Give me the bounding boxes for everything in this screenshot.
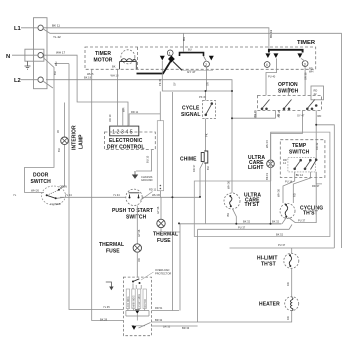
svg-text:WH: WH (309, 70, 313, 74)
chassis ground arrow (134, 171, 136, 175)
thermal fuse B (157, 219, 165, 227)
svg-text:WH 36: WH 36 (277, 189, 281, 197)
svg-text:INTERIOR: INTERIOR (72, 125, 78, 150)
svg-text:MAIN WDG: MAIN WDG (133, 295, 136, 307)
wire PTS to chime drop (142, 196, 200, 198)
svg-text:FUSE: FUSE (106, 249, 120, 255)
motor internal wires (126, 284, 151, 329)
svg-text:CHIME: CHIME (180, 156, 197, 162)
svg-text:SWITCH: SWITCH (31, 179, 52, 185)
timer motor dashed box partition (137, 47, 139, 69)
svg-text:RD: RD (293, 193, 297, 197)
contact triangle 4a (265, 53, 270, 58)
contact triangle left of diamond (160, 56, 165, 61)
ultra care light (267, 160, 275, 168)
svg-text:BK 11: BK 11 (52, 24, 60, 28)
wire chime 2nd terminal to PTS line (200, 162, 203, 197)
svg-text:GROUND: GROUND (141, 178, 153, 182)
wire circle2 down to PK line (206, 67, 208, 91)
svg-text:BK: BK (226, 213, 230, 217)
svg-text:BU: BU (206, 166, 210, 170)
svg-text:CLOSED: CLOSED (50, 202, 61, 206)
door switch dashed outline (42, 186, 66, 205)
svg-text:RD 51: RD 51 (155, 306, 163, 310)
svg-text:WH 5: WH 5 (87, 72, 94, 76)
wire interior lamp rail (64, 103, 66, 138)
motor winding 1 (126, 289, 129, 309)
push to start switch (126, 189, 142, 205)
wire WH17 N to dry control (44, 55, 129, 126)
svg-text:WH 36: WH 36 (226, 181, 230, 189)
svg-text:RD 11: RD 11 (149, 188, 157, 192)
terminal block N section (25, 49, 44, 61)
wire temp switch feed (315, 125, 317, 159)
svg-text:YL 35: YL 35 (103, 305, 110, 309)
wire RD11 PTS up to timer (171, 92, 173, 311)
wire circle 3 to option switch (301, 58, 305, 95)
svg-text:DOOR: DOOR (33, 173, 49, 179)
svg-text:BK 32: BK 32 (243, 220, 251, 224)
wire N lead (12, 54, 38, 56)
svg-text:LIGHT: LIGHT (248, 165, 264, 171)
svg-text:PK: PK (205, 133, 209, 137)
svg-text:PU 15: PU 15 (253, 110, 257, 118)
svg-text:L1: L1 (14, 26, 22, 32)
terminal L2 (38, 77, 43, 82)
svg-text:N: N (6, 54, 10, 60)
svg-text:WH 36: WH 36 (152, 193, 160, 197)
overload protector symbol (132, 281, 134, 283)
wire L1 lead (21, 27, 38, 29)
svg-text:BU 14: BU 14 (296, 173, 304, 177)
svg-text:TH'ST: TH'ST (245, 202, 260, 208)
solid box around temp switch and cycling thst (194, 132, 330, 236)
svg-text:BK 28: BK 28 (100, 317, 108, 321)
svg-text:DRY CONTROL: DRY CONTROL (107, 144, 145, 150)
svg-text:OR: OR (206, 82, 210, 86)
svg-text:YL 42: YL 42 (53, 35, 61, 39)
contact triangle right of bracket (209, 56, 214, 61)
svg-text:AUX WDG: AUX WDG (127, 296, 130, 307)
wire cycling bottom left (282, 218, 286, 224)
svg-text:BU: BU (53, 71, 57, 75)
svg-text:RD: RD (314, 89, 318, 93)
wire mid rail x197 (197, 229, 199, 322)
svg-text:BR 33: BR 33 (163, 325, 171, 329)
svg-text:HEATER: HEATER (259, 302, 280, 308)
wire option out to right rail (316, 110, 334, 248)
svg-text:BU: BU (182, 37, 186, 41)
svg-text:RD: RD (286, 282, 290, 286)
heater (285, 297, 299, 311)
wire cycle signal top (205, 91, 207, 101)
timer dashed box (85, 47, 316, 69)
wire neutral rail top link (55, 63, 70, 65)
svg-text:RD 42: RD 42 (315, 142, 319, 150)
wire YL42 L1 to right edge (43, 29, 341, 248)
wire option out to ultra care light (271, 110, 303, 133)
wire hi-limit to heater (291, 268, 293, 296)
thick wire motor to contact 1 junction (137, 61, 171, 74)
cycle signal contact (205, 103, 213, 116)
electronic dry control dashed box (104, 132, 155, 150)
svg-text:SWITCH: SWITCH (289, 150, 310, 156)
junction dots (171, 90, 317, 225)
wire GY47 junction to option switch (173, 62, 182, 71)
wire temp out right to cycling top (293, 172, 310, 203)
svg-text:ROTOR: ROTOR (145, 299, 147, 308)
terminal N (38, 53, 43, 58)
wire L2 lead (21, 79, 38, 81)
timer motor M1 (121, 50, 135, 64)
wire dry control terminal 4 RD11 (129, 92, 160, 127)
svg-text:ELECTRONIC: ELECTRONIC (109, 138, 143, 144)
svg-text:WH: WH (122, 108, 126, 112)
svg-text:PU 37: PU 37 (278, 243, 286, 247)
wire BK11 L1 to timer contact 4 (43, 28, 269, 50)
option switch contact S3 (306, 100, 317, 110)
svg-text:L2: L2 (14, 78, 21, 84)
wire lamp to door switch open (59, 145, 65, 190)
svg-text:1: 1 (169, 52, 171, 56)
svg-text:GY 36: GY 36 (156, 206, 160, 214)
svg-text:MOTOR: MOTOR (94, 57, 113, 63)
svg-text:PU 37: PU 37 (238, 225, 246, 229)
wire fuse A to motor (136, 252, 138, 277)
svg-text:RD: RD (318, 114, 322, 118)
ultra care thermostat (224, 193, 240, 209)
svg-text:3: 3 (304, 62, 306, 66)
svg-text:TH'ST: TH'ST (303, 211, 318, 217)
wire L2 to door switch (25, 68, 54, 193)
svg-text:PU 37: PU 37 (298, 218, 306, 222)
svg-text:GY 36: GY 36 (137, 229, 141, 237)
svg-text:PU 14: PU 14 (285, 180, 293, 184)
svg-text:SWITCH: SWITCH (278, 89, 299, 95)
belt switch arrow (106, 282, 112, 287)
svg-text:PK 45: PK 45 (158, 78, 162, 86)
interior lamp (61, 137, 69, 145)
svg-text:BR 32: BR 32 (155, 318, 163, 322)
timer contact bracket BU (180, 53, 204, 56)
svg-text:4: 4 (266, 63, 268, 67)
timer contact circle 3 (302, 61, 308, 67)
svg-text:OR 19: OR 19 (108, 114, 112, 122)
wire L2 to ultra care thermostat (43, 80, 232, 193)
wire fuse B top to PTS line (160, 198, 162, 220)
cycling thermostat (280, 204, 295, 219)
svg-text:BK 19: BK 19 (265, 172, 269, 180)
hi-limit thermostat (284, 253, 299, 268)
svg-text:RD 37: RD 37 (192, 164, 196, 172)
wire BK rail from timer motor (92, 72, 124, 321)
wire PTS down to thermal fuse A (136, 206, 138, 244)
svg-text:FUSE: FUSE (157, 238, 171, 244)
svg-text:BK: BK (112, 65, 116, 69)
svg-text:RD 11: RD 11 (131, 110, 139, 114)
wire light bottom to BK32 (270, 168, 272, 224)
svg-text:START WDG: START WDG (138, 294, 141, 308)
svg-text:GY 47: GY 47 (297, 114, 305, 118)
svg-text:OR: OR (137, 258, 141, 262)
wire dry control output BU15 (136, 150, 152, 171)
motor winding 2 (132, 289, 135, 309)
svg-text:WH: WH (54, 62, 58, 66)
svg-text:TIMER: TIMER (95, 51, 111, 57)
svg-text:BU 15: BU 15 (146, 155, 150, 163)
wire BU drop to timer bracket (182, 33, 184, 51)
svg-text:LAMP: LAMP (79, 134, 85, 149)
motor winding 3 (137, 289, 140, 309)
wire bracket to circle 2 (204, 56, 207, 61)
svg-text:OR 36: OR 36 (304, 72, 308, 80)
ground symbol (25, 61, 31, 69)
terminal block body (34, 18, 48, 89)
svg-text:GY: GY (173, 82, 177, 86)
svg-text:OPTION: OPTION (278, 82, 298, 88)
wire dry control terminal 3 stub (122, 108, 124, 126)
timer contact circle 2 (204, 61, 210, 67)
svg-text:BU: BU (57, 148, 61, 152)
svg-text:WH 15: WH 15 (265, 140, 269, 148)
svg-text:YL: YL (13, 193, 17, 197)
svg-text:BR 33: BR 33 (182, 326, 190, 330)
svg-text:CYCLE: CYCLE (182, 106, 200, 112)
svg-text:YL 34: YL 34 (113, 193, 120, 197)
start capacitor box (157, 121, 163, 191)
svg-text:TEMP: TEMP (292, 143, 307, 149)
cycle signal dashed box (203, 101, 216, 119)
svg-text:TIMER: TIMER (297, 40, 316, 46)
temp switch contacts (294, 159, 317, 170)
motor dashed box (123, 277, 151, 336)
svg-text:GY 47: GY 47 (187, 70, 196, 74)
wire ultra bottom to BK32 line (233, 209, 237, 224)
svg-text:BK 52: BK 52 (276, 232, 284, 236)
svg-text:TH'ST: TH'ST (261, 261, 276, 267)
timer motor terminal drops (92, 69, 118, 72)
svg-text:BK 19: BK 19 (84, 76, 92, 80)
wire capacitor box bottom to PTS line (159, 191, 161, 198)
timer contact circle 4 (264, 62, 270, 68)
wire option out to ultra thermostat feed (232, 110, 276, 118)
svg-text:OR 26: OR 26 (277, 109, 281, 117)
wire dry control terminal 2 from timer motor (117, 72, 119, 126)
wire neutral rail left tall (69, 64, 123, 310)
svg-text:WH 17: WH 17 (56, 51, 66, 55)
wire heater bottom to motor (151, 311, 291, 322)
temp switch inner dashed box (288, 157, 315, 172)
svg-text:BU: BU (188, 48, 192, 52)
svg-text:OPEN: OPEN (60, 185, 67, 189)
wire fuse B right to motor RD51 rail (180, 223, 282, 225)
thermal fuse A (133, 244, 141, 252)
electronic dry control terminal strip (110, 126, 139, 136)
door switch contact (46, 194, 48, 196)
svg-text:RD: RD (286, 316, 290, 320)
wire temp out far right down (316, 172, 322, 184)
contact triangle 4b (273, 53, 278, 58)
contact diamond junction (168, 56, 175, 63)
wire temp out left to cycling top (283, 172, 295, 203)
wire BR33 motor lower exit (151, 325, 197, 327)
svg-text:2: 2 (205, 63, 207, 67)
svg-text:BK 19: BK 19 (269, 29, 273, 38)
wire YL34 door switch to PTS (60, 196, 126, 198)
timer contact circle 1 (167, 50, 173, 56)
svg-text:THERMAL: THERMAL (99, 242, 124, 248)
contact triangle 3 (297, 53, 302, 58)
wire RD51 motor to rail (151, 310, 179, 312)
temp switch dashed box (280, 140, 325, 178)
option switch contact S1 (261, 100, 269, 110)
wire PU40 triangle to option switch (266, 58, 277, 95)
svg-text:PUSH TO START: PUSH TO START (112, 208, 153, 214)
svg-text:PU 40: PU 40 (268, 75, 276, 79)
option switch dashed box (258, 95, 322, 110)
svg-text:WH 26: WH 26 (31, 189, 39, 193)
svg-text:PROTECTOR: PROTECTOR (155, 271, 171, 275)
connector sub-box RD42 (311, 86, 324, 100)
wire PU37 rail to hi-limit (230, 247, 335, 249)
wire chime bottom (205, 163, 207, 223)
wire N diag to lamp rail (43, 58, 54, 68)
svg-text:BK 32: BK 32 (272, 220, 280, 224)
wire cycling bottom right PU37 (289, 172, 317, 223)
terminal L1 (38, 25, 43, 30)
svg-text:SWITCH: SWITCH (126, 214, 147, 220)
thick bar timer right contacts (269, 50, 303, 53)
motor winding 4 (143, 289, 146, 309)
wire light top (270, 133, 272, 160)
option switch contact S2 (283, 100, 291, 110)
wire option middle input stub (288, 88, 290, 96)
wire BK32 line (236, 223, 281, 225)
wire PK45 contact to cycle signal line (162, 61, 232, 91)
svg-text:SIGNAL: SIGNAL (181, 112, 201, 118)
wire cycle signal to chime (205, 119, 207, 151)
motor contact triangles (135, 310, 140, 314)
chime speaker (201, 153, 204, 162)
